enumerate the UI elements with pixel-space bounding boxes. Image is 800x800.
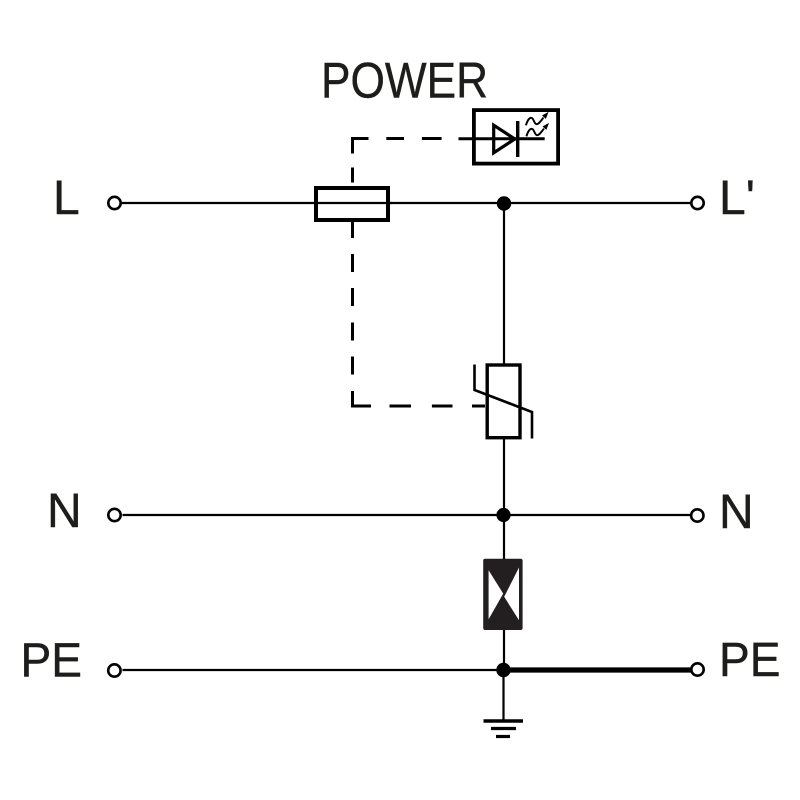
LED light arrow 1 xyxy=(526,118,544,126)
wire bus N to gas tube xyxy=(503,515,505,560)
LED diode axis wire xyxy=(459,137,545,140)
dashed wire corner bottom xyxy=(353,391,372,406)
terminal L' xyxy=(691,197,703,209)
terminal L xyxy=(108,197,120,209)
wire bus varistor to N xyxy=(503,439,505,515)
wire L line xyxy=(122,202,690,204)
ground bar 1 xyxy=(484,719,524,723)
dashed wire bottom horizontal dashes xyxy=(390,405,486,408)
ground bar 2 xyxy=(491,727,516,730)
LED light arrow 2 xyxy=(526,129,544,137)
fuse F1 xyxy=(316,188,388,220)
terminal N left xyxy=(108,509,120,521)
svg-text:L': L' xyxy=(719,172,755,225)
dashed wire top horizontal dashes xyxy=(386,137,441,140)
ground stem xyxy=(502,670,504,720)
varistor diagonal stroke xyxy=(475,365,533,439)
wire PE line right thick xyxy=(504,667,692,672)
dashed wire corner top xyxy=(353,139,369,154)
wire N line xyxy=(123,514,691,516)
gas discharge tube white wedge right xyxy=(504,568,519,621)
wire PE line left xyxy=(123,669,504,671)
wire bus L to varistor xyxy=(503,204,505,366)
wire through fuse xyxy=(314,202,392,204)
svg-text:PE: PE xyxy=(21,634,83,687)
terminal PE left xyxy=(108,664,120,676)
svg-text:POWER: POWER xyxy=(321,53,488,109)
LED diode cathode bar xyxy=(516,121,519,157)
node junction on L xyxy=(497,196,511,210)
svg-text:L: L xyxy=(53,172,80,225)
svg-text:N: N xyxy=(47,485,82,538)
dashed wire vertical dashes xyxy=(351,168,354,375)
terminal PE right xyxy=(691,663,703,675)
wire bus gas tube to PE xyxy=(503,630,505,670)
svg-text:N: N xyxy=(719,486,754,539)
ground bar 3 xyxy=(496,735,510,738)
svg-text:PE: PE xyxy=(719,634,781,687)
node junction on N xyxy=(496,508,510,522)
varistor xyxy=(487,365,520,438)
terminal N right xyxy=(691,509,703,521)
gas discharge tube white wedge left xyxy=(489,570,504,619)
LED diode triangle xyxy=(494,125,515,153)
node junction on PE xyxy=(496,663,510,677)
LED indicator box xyxy=(474,110,558,164)
gas discharge tube body xyxy=(483,559,522,630)
